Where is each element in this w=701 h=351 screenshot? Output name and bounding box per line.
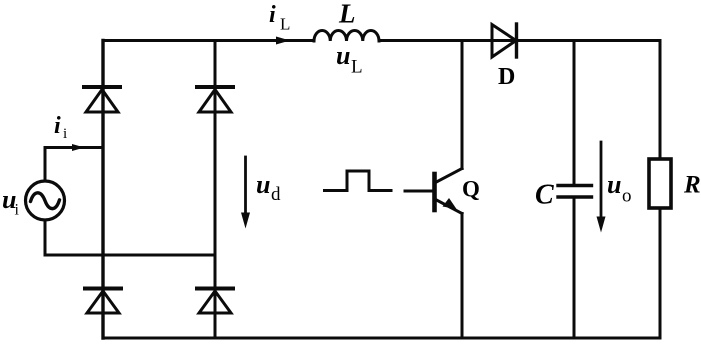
wire source top lead [44,148,47,182]
arrow voltage uo [600,142,603,219]
capacitor C [558,41,592,339]
arrow current iL [276,37,290,45]
diode VD4 lower-right [197,289,233,314]
wire middle bridge vertical [214,41,217,339]
svg-text:o: o [622,186,632,207]
wire ac return to bridge [45,254,215,257]
resistor R [649,41,671,339]
inductor L [314,30,379,41]
svg-text:d: d [271,184,281,205]
svg-text:L: L [338,0,356,29]
transistor Q [435,41,463,339]
diode VD3 lower-left [85,289,121,314]
ac source sine wave [31,193,60,209]
ac source ui circle [26,181,65,220]
svg-text:i: i [15,202,20,219]
wire bottom bus [103,337,660,340]
svg-text:Q: Q [462,177,480,202]
svg-text:i: i [63,126,67,142]
svg-text:L: L [280,15,290,34]
svg-text:u: u [256,170,270,199]
wire ii horizontal [45,146,102,149]
svg-text:u: u [607,170,621,199]
arrow voltage ud [244,157,247,215]
wire source bottom lead [44,220,47,255]
arrow current ii [72,144,85,151]
diode D [492,24,517,57]
wire base lead [405,190,433,193]
pulse drive waveform [325,171,392,191]
diode VD2 upper-right [197,87,233,112]
svg-text:u: u [336,41,350,70]
diode VD1 upper-left [84,87,120,112]
wire left bridge vertical [101,41,104,339]
svg-text:i: i [269,2,276,28]
svg-text:L: L [351,57,363,78]
svg-text:C: C [535,180,554,211]
svg-text:D: D [498,64,515,90]
svg-text:R: R [683,172,701,199]
svg-text:i: i [54,113,61,139]
wire top bus right segment [379,39,660,42]
wire top bus left segment [103,39,314,42]
